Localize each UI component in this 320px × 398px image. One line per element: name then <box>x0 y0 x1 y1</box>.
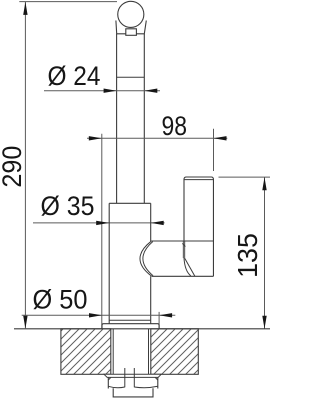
dimension line diameter 50 <box>22 314 176 316</box>
arrow right at body left <box>96 221 109 225</box>
washer plate <box>104 374 161 377</box>
arrow up 135 <box>262 177 266 190</box>
stud line right <box>133 368 135 387</box>
svg-text:Ø 35: Ø 35 <box>41 191 95 221</box>
arrow left at body right <box>151 221 164 225</box>
base joint seam <box>109 319 151 321</box>
arrow right at flange left <box>89 313 102 317</box>
svg-text:98: 98 <box>162 111 188 141</box>
shank right edge <box>148 329 150 374</box>
dimension line 98 <box>87 137 227 139</box>
elbow intersection curve inner <box>143 242 153 276</box>
arrow left at pipe right <box>144 89 157 93</box>
lever base tick <box>182 243 185 246</box>
elbow top line <box>151 240 213 242</box>
body shoulder line <box>109 202 151 204</box>
svg-text:135: 135 <box>232 233 263 278</box>
nut body <box>108 377 158 388</box>
body right edge upper <box>150 203 152 241</box>
spout pipe left edge <box>116 34 118 204</box>
base flange <box>102 324 159 329</box>
nut chamfer right <box>155 377 158 380</box>
arrow right at pipe left <box>104 89 117 93</box>
shank left edge <box>112 329 114 374</box>
body left edge <box>108 203 110 323</box>
pipe joint line <box>117 76 145 78</box>
svg-text:Ø 24: Ø 24 <box>48 61 101 91</box>
svg-text:290: 290 <box>0 146 27 188</box>
arrow left at flange right <box>159 313 172 317</box>
arrow down 135 <box>262 316 266 329</box>
countertop surface line <box>14 328 270 330</box>
countertop left block <box>61 329 111 375</box>
arrow right 98 left end <box>89 136 102 140</box>
arrow down 290 <box>23 316 27 329</box>
extension line flange right <box>158 312 160 329</box>
lever fillet arc <box>184 258 191 276</box>
arrow up 290 <box>23 2 27 15</box>
dimension line 135 <box>264 177 266 328</box>
nut bottom arcs <box>108 386 158 387</box>
extension line 98 right <box>213 129 215 171</box>
elbow bottom line <box>152 275 214 277</box>
body right edge lower <box>150 276 152 324</box>
side cylinder outline <box>184 177 213 276</box>
svg-text:Ø 50: Ø 50 <box>33 285 88 315</box>
lever edge thick segment <box>183 242 185 259</box>
extension line 98 left / base left edge <box>101 134 103 329</box>
lever diagonal <box>185 258 195 276</box>
dimension line diameter 35 <box>33 222 165 224</box>
stud line left <box>124 368 126 387</box>
extension line 135 top <box>219 176 271 178</box>
dimension line diameter 24 <box>44 90 160 92</box>
elbow intersection curve outer <box>140 241 152 276</box>
push button on collar <box>126 29 137 36</box>
countertop right block <box>151 329 199 375</box>
spout pipe right edge <box>143 34 145 204</box>
extension line top (290 reference at faucet top) <box>19 1 117 3</box>
handle ball circle <box>118 1 144 27</box>
dimension line 290 vertical <box>24 2 26 328</box>
arrow left 98 right end <box>214 136 227 140</box>
tailpiece <box>113 388 153 397</box>
side cylinder cap inner line <box>184 179 213 181</box>
nut chamfer left <box>108 377 111 380</box>
collar below handle <box>116 21 146 34</box>
